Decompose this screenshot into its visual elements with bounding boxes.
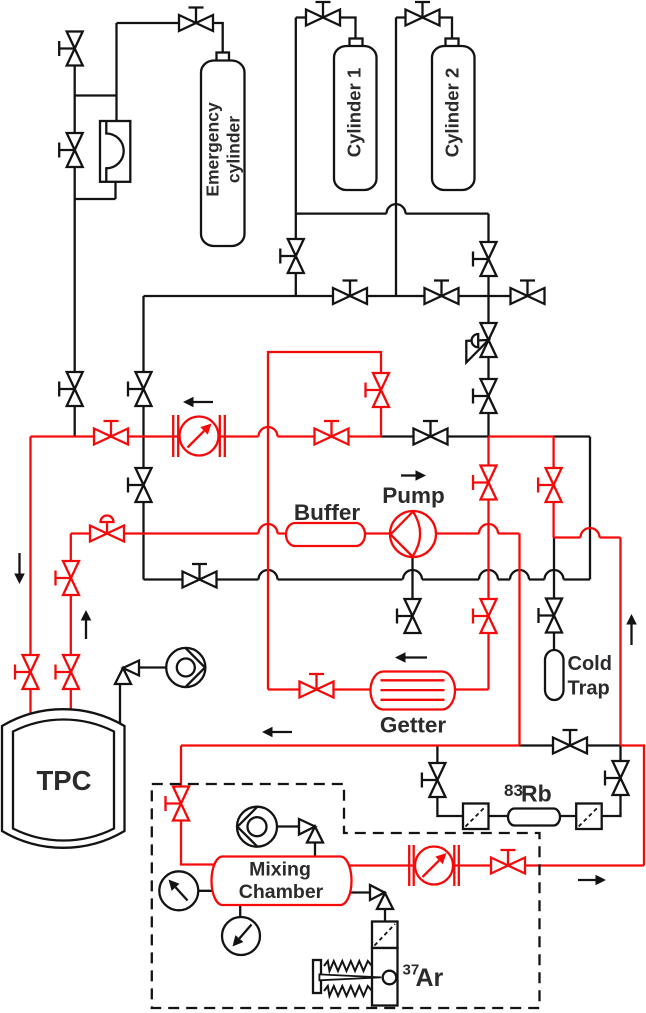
jump lower manifold over getter-return line xyxy=(259,570,278,580)
wire red segment junction to cold-trap branch xyxy=(489,435,554,437)
svg-text:Cylinder 2: Cylinder 2 xyxy=(442,68,463,157)
pump circulation xyxy=(390,511,436,557)
arrow pump direction xyxy=(401,470,426,481)
wire Ar generator link xyxy=(346,893,385,922)
valve emergency line upper xyxy=(59,32,82,66)
svg-text:Mixing: Mixing xyxy=(249,859,311,881)
valve mixing return line xyxy=(553,730,587,754)
svg-text:Chamber: Chamber xyxy=(239,881,324,903)
relief valve with actuator xyxy=(466,323,496,363)
valve red transfer right xyxy=(315,421,349,445)
svg-text:Trap: Trap xyxy=(568,678,610,700)
arrow getter direction xyxy=(395,652,427,663)
valve left riser upper xyxy=(128,372,152,406)
flow meter transfer line xyxy=(173,415,225,457)
Ar generator needle xyxy=(319,974,381,980)
valve getter riser upper xyxy=(473,466,497,500)
jump lower manifold over pump drain xyxy=(403,570,422,580)
valve emergency cylinder top xyxy=(179,8,213,32)
arrow outlet right xyxy=(578,875,606,886)
wire right red drop line xyxy=(619,538,621,746)
valve cylinder1 line xyxy=(280,239,304,273)
check valve TPC turbo xyxy=(115,661,139,685)
wire red right return xyxy=(621,746,645,866)
valve pump suction (dome) xyxy=(90,516,124,542)
jump pump suction over getter-return xyxy=(259,524,278,534)
jump lower manifold over pump outlet drop xyxy=(510,570,529,580)
mixing chamber vessel xyxy=(212,857,352,906)
check valve mixing turbo xyxy=(299,819,323,843)
Ar filter box xyxy=(372,922,398,949)
wire red transfer line xyxy=(31,435,382,437)
wire Rb loop right riser xyxy=(602,746,621,817)
valve cylinder 2 top xyxy=(406,2,440,26)
cylinder 1 vessel xyxy=(334,39,377,191)
TPC vessel xyxy=(2,709,125,848)
Rb filter box left xyxy=(463,804,489,830)
wire red TPC feed left xyxy=(29,437,31,729)
buffer vessel xyxy=(286,523,365,546)
valve right riser lower xyxy=(473,379,497,413)
wire cylinder1 branch xyxy=(296,18,356,297)
getter vessel xyxy=(371,672,456,710)
svg-text:Ar: Ar xyxy=(416,964,444,992)
pump label xyxy=(382,483,445,508)
valve left line to transfer xyxy=(59,372,82,406)
wire gauge links at mixing chamber xyxy=(198,891,240,918)
wire left riser to lower manifold xyxy=(142,296,144,580)
valve cold-trap bypass xyxy=(538,468,562,502)
wire emergency-cylinder main line xyxy=(74,49,76,437)
cold trap label xyxy=(568,653,612,700)
valve pump drain vent xyxy=(397,599,421,633)
valve right riser upper xyxy=(473,242,497,276)
jump crossover over cylinder2 line xyxy=(387,204,406,214)
wire manifold upper xyxy=(144,295,528,297)
valve cylinder 1 top xyxy=(306,2,340,26)
wire black segment right of transfer line xyxy=(554,435,590,437)
valve manifold center xyxy=(333,281,367,305)
check valve Ar inlet xyxy=(370,885,393,909)
mixing chamber label xyxy=(239,859,324,904)
valve manifold mid-right xyxy=(425,281,459,305)
Ar label xyxy=(403,962,444,993)
wire upper crossover line xyxy=(296,214,489,437)
wire pump suction line xyxy=(71,532,520,534)
arrow right riser up xyxy=(626,614,637,645)
wire pump drain to vent valve xyxy=(411,557,413,633)
valve manifold vent (dead end) xyxy=(511,281,545,305)
pressure gauge mixing left xyxy=(159,871,198,910)
wire cold-trap drop line xyxy=(553,538,555,651)
arrow mixing loop left xyxy=(262,727,292,738)
valve red transfer left xyxy=(94,421,128,445)
wire cylinder2 branch xyxy=(396,18,452,297)
jump pump outlet over getter riser xyxy=(479,524,498,534)
regulator PR1 xyxy=(100,121,130,182)
Ar generator body xyxy=(372,948,398,1006)
wire mixing turbo link xyxy=(277,827,315,859)
valve emergency line lower xyxy=(59,133,82,167)
valve getter riser lower xyxy=(473,599,497,633)
svg-text:Getter: Getter xyxy=(380,713,447,738)
turbo pump mixing chamber xyxy=(237,807,277,847)
cylinder 1 label xyxy=(344,68,365,157)
valve left riser lower xyxy=(128,468,152,502)
svg-text:TPC: TPC xyxy=(37,765,92,796)
wire Rb chain links xyxy=(489,815,577,817)
dashed enclosure mixing section xyxy=(152,784,540,1008)
wire mixing chamber outlet xyxy=(345,864,644,866)
TPC label xyxy=(37,765,92,796)
wire cold-trap bypass across xyxy=(554,536,621,538)
svg-text:Buffer: Buffer xyxy=(294,500,360,525)
Rb label xyxy=(504,781,552,807)
valve lower manifold left xyxy=(183,564,217,588)
wire getter bottom line xyxy=(268,688,489,690)
wire cold-trap bypass down xyxy=(552,437,554,538)
valve red bypass xyxy=(366,373,390,407)
valve TPC feed right upper xyxy=(56,561,80,595)
valve transfer line black xyxy=(414,421,448,445)
jump lower manifold over cold-trap line xyxy=(545,570,564,580)
valve TPC feed right lower xyxy=(56,655,80,689)
cylinder 2 vessel xyxy=(432,39,475,191)
valve Rb loop left xyxy=(422,763,446,797)
buffer label xyxy=(294,500,360,525)
cylinder 2 label xyxy=(442,68,463,157)
valve TPC feed left xyxy=(15,655,39,689)
arrow TPC feed down xyxy=(14,553,25,584)
wire black segment mixing return xyxy=(520,744,621,746)
arrow TPC return up xyxy=(81,610,92,639)
valve Rb loop right xyxy=(605,761,629,795)
svg-text:Emergency: Emergency xyxy=(203,102,223,197)
cold trap vessel xyxy=(545,650,564,700)
svg-text:Rb: Rb xyxy=(521,781,552,807)
wire mixing loop feed xyxy=(181,746,520,865)
turbo pump TPC xyxy=(166,648,205,687)
wire TPC turbo line xyxy=(120,668,167,729)
arrow transfer line left xyxy=(183,397,213,408)
jump red bypass over black riser xyxy=(581,528,600,538)
jump red transfer line over getter-return xyxy=(259,427,278,437)
valve getter inlet xyxy=(300,674,334,698)
Ar generator anchor bar xyxy=(313,960,321,993)
svg-text:Cylinder 1: Cylinder 1 xyxy=(344,68,365,157)
wire regulator bypass branch xyxy=(75,23,117,199)
wire top line to emergency cylinder xyxy=(117,23,223,54)
valve mixing outlet xyxy=(491,850,525,874)
wire lower manifold xyxy=(144,437,591,580)
pressure gauge mixing bottom xyxy=(222,917,260,955)
wire Rb loop left riser xyxy=(437,746,463,817)
Rb source capsule xyxy=(508,809,560,826)
valve cold trap top xyxy=(539,599,563,633)
svg-text:Pump: Pump xyxy=(382,483,445,508)
wire getter riser xyxy=(487,437,489,690)
Ar generator lower spring xyxy=(324,986,372,996)
Ar generator upper spring xyxy=(324,961,372,971)
wire black segment of transfer line xyxy=(381,435,489,437)
wire pump outlet drop xyxy=(518,534,520,746)
getter label xyxy=(380,713,447,738)
flow meter mixing outlet xyxy=(409,845,459,886)
emergency cylinder vessel xyxy=(201,53,245,247)
jump lower manifold over getter riser xyxy=(479,570,498,580)
wire red bypass loop xyxy=(268,352,381,690)
Ar generator seat circle xyxy=(383,971,397,985)
svg-text:Cold: Cold xyxy=(568,653,612,675)
valve mixing chamber inlet xyxy=(166,787,190,821)
svg-text:cylinder: cylinder xyxy=(224,116,244,183)
Rb filter box right xyxy=(576,804,602,830)
emergency cylinder label xyxy=(203,102,244,197)
wire TPC feed right with valves xyxy=(70,534,72,727)
